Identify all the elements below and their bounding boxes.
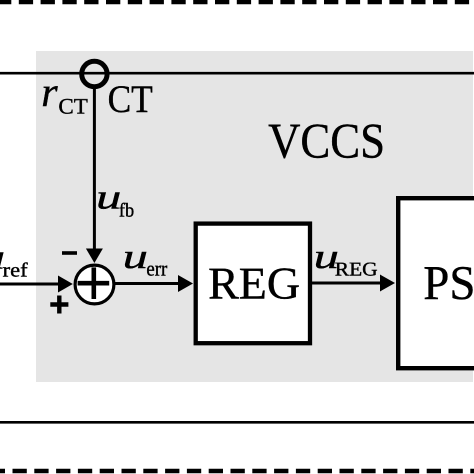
- svg-text:ref: ref: [3, 260, 28, 282]
- svg-text:u: u: [96, 177, 121, 216]
- svg-text:PS: PS: [423, 257, 474, 310]
- svg-text:CT: CT: [58, 94, 88, 119]
- svg-text:u: u: [123, 237, 148, 276]
- svg-text:VCCS: VCCS: [268, 113, 385, 169]
- svg-text:REG: REG: [335, 260, 378, 281]
- svg-text:fb: fb: [119, 200, 134, 221]
- svg-text:err: err: [146, 257, 167, 281]
- svg-text:CT: CT: [108, 78, 153, 121]
- svg-text:REG: REG: [208, 258, 300, 309]
- svg-text:r: r: [41, 70, 58, 116]
